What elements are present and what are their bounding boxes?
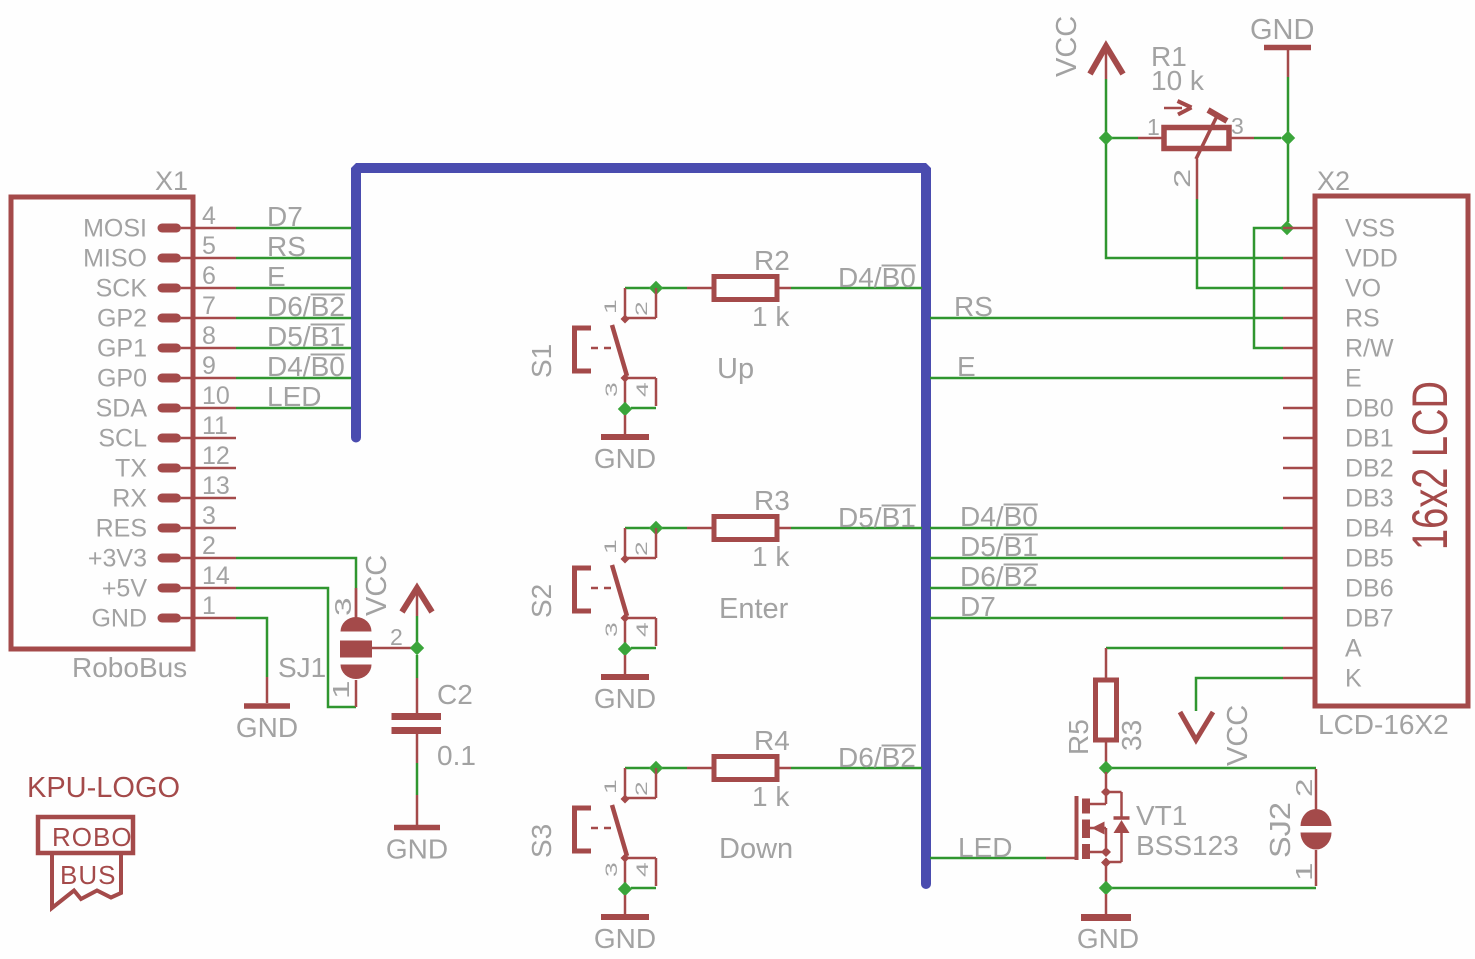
- svg-text:3: 3: [602, 382, 621, 397]
- svg-text:LED: LED: [958, 832, 1012, 863]
- svg-text:R/W: R/W: [1345, 335, 1394, 363]
- wire net D4/B0 from X1 to bus: [236, 377, 358, 380]
- junction at S3 pin 3: [618, 882, 632, 896]
- net label E right of bus: [957, 351, 976, 382]
- svg-text:13: 13: [202, 472, 230, 500]
- label S2: [526, 584, 557, 618]
- svg-text:R4: R4: [754, 725, 790, 756]
- svg-text:BUS: BUS: [60, 860, 116, 890]
- wire VCC arrow to junction: [416, 616, 419, 648]
- S1 pin number 2: [632, 301, 651, 316]
- value 1 k of R2: [752, 301, 790, 332]
- bus D[4..7],RS,E,LED: [356, 168, 926, 884]
- svg-text:S3: S3: [526, 824, 557, 858]
- junction VCC / R1.1 / VDD: [1099, 131, 1113, 145]
- label 16x2 LCD: [1403, 381, 1458, 550]
- svg-text:VSS: VSS: [1345, 215, 1395, 243]
- X2 pin A: [1283, 635, 1362, 663]
- svg-text:BSS123: BSS123: [1136, 830, 1239, 861]
- svg-text:1 k: 1 k: [752, 781, 790, 812]
- label SJ1: [278, 652, 326, 683]
- R1 wiper arrow: [1164, 101, 1192, 115]
- X2 pin DB3: [1283, 485, 1394, 513]
- X1 pin 11 SCL: [98, 412, 236, 453]
- svg-text:GND: GND: [594, 923, 656, 954]
- svg-text:RS: RS: [267, 231, 306, 262]
- net label D4/B0: [267, 351, 345, 382]
- svg-text:D4/B0: D4/B0: [267, 351, 345, 382]
- wire junction to SJ2 pin 2: [1112, 767, 1316, 770]
- X1 pin 4 MOSI: [83, 202, 236, 243]
- svg-text:1: 1: [1292, 862, 1318, 881]
- svg-text:10: 10: [202, 382, 230, 410]
- svg-text:D5/B1: D5/B1: [838, 502, 916, 533]
- resistor R5: [1096, 648, 1117, 762]
- X2 pin DB6: [1283, 575, 1394, 603]
- X2 pin E: [1283, 365, 1362, 393]
- net label D4/B0: [838, 262, 916, 293]
- svg-text:SJ1: SJ1: [278, 652, 326, 683]
- junction at S2 pin 3: [618, 642, 632, 656]
- ground symbol below S3: [594, 917, 656, 954]
- svg-text:6: 6: [202, 262, 216, 290]
- junction GND / R1.3: [1281, 131, 1295, 145]
- svg-text:SDA: SDA: [96, 395, 148, 423]
- ground symbol below X1: [236, 677, 298, 743]
- KPU-LOGO text: [27, 772, 180, 804]
- svg-text:3: 3: [331, 597, 357, 616]
- svg-text:VT1: VT1: [1136, 800, 1187, 831]
- S2 pin number 2: [632, 541, 651, 556]
- value 1 k of R3: [752, 541, 790, 572]
- wire VCC to R1 pin 1: [1106, 79, 1138, 138]
- VCC symbol above C2: [402, 588, 432, 616]
- value 1 k of R4: [752, 781, 790, 812]
- VCC symbol pointing down near K: [1180, 712, 1213, 740]
- wire VCC junction to X2 VDD: [1106, 144, 1283, 258]
- svg-text:5: 5: [202, 232, 216, 260]
- SJ1 pin number 3: [331, 597, 357, 616]
- svg-text:12: 12: [202, 442, 230, 470]
- junction VT1 source / GND: [1099, 881, 1113, 895]
- svg-text:2: 2: [632, 781, 651, 796]
- R1 pin number 2: [1170, 169, 1196, 188]
- switch S3 Down: [572, 768, 656, 889]
- label VCC top right: [1051, 16, 1083, 77]
- net label D6/B2: [838, 742, 916, 773]
- wire net VCC from X1 +3V3 to SJ1 pin 3: [236, 558, 356, 618]
- net label D5/B1 right of bus: [960, 531, 1038, 562]
- label Enter: [719, 593, 789, 625]
- resistor R4: [687, 757, 791, 780]
- svg-text:GP2: GP2: [97, 305, 147, 333]
- svg-text:RS: RS: [954, 291, 993, 322]
- label RoboBus: [72, 652, 187, 683]
- solder jumper SJ2: [1301, 769, 1332, 886]
- svg-text:RS: RS: [1345, 305, 1380, 333]
- svg-text:GND: GND: [1250, 14, 1314, 46]
- S3 pin number 2: [632, 781, 651, 796]
- svg-text:D4/B0: D4/B0: [960, 501, 1038, 532]
- svg-text:DB7: DB7: [1345, 605, 1394, 633]
- svg-text:DB0: DB0: [1345, 395, 1394, 423]
- junction at S1 pin 3: [618, 402, 632, 416]
- wire R1 pin 3 to GND junction: [1254, 137, 1281, 140]
- svg-text:GND: GND: [594, 443, 656, 474]
- X1 pin 14 +5V: [102, 562, 236, 603]
- svg-text:LED: LED: [267, 381, 321, 412]
- X2 pin VDD: [1283, 245, 1398, 273]
- svg-text:D7: D7: [267, 201, 303, 232]
- svg-text:1: 1: [202, 592, 216, 620]
- wire net D6/B2 from R4 to bus: [791, 767, 922, 770]
- svg-text:2: 2: [1170, 169, 1196, 188]
- svg-text:D6/B2: D6/B2: [838, 742, 916, 773]
- X2 pin DB2: [1283, 455, 1394, 483]
- S2 pin number 1: [601, 539, 620, 554]
- svg-text:MISO: MISO: [83, 245, 147, 273]
- net label D6/B2 right of bus: [960, 561, 1038, 592]
- svg-text:3: 3: [602, 622, 621, 637]
- SJ1 pin number 2: [390, 624, 403, 650]
- transistor VT1 BSS123: [1046, 772, 1130, 884]
- svg-text:2: 2: [202, 532, 216, 560]
- label VT1: [1136, 800, 1187, 831]
- wire S2 to ground: [624, 655, 627, 675]
- label VCC at SJ1: [361, 555, 393, 616]
- wire net D5/B1 from bus to X2: [930, 557, 1283, 560]
- switch S1 Up: [572, 288, 656, 409]
- wire net D6/B2 from bus to X2: [930, 587, 1283, 590]
- R1 pin number 3: [1231, 113, 1244, 139]
- svg-text:+5V: +5V: [102, 575, 148, 603]
- svg-text:R3: R3: [754, 485, 790, 516]
- label Up: [717, 353, 754, 385]
- value 10 k: [1151, 65, 1205, 96]
- net label D6/B2: [267, 291, 345, 322]
- RoboBus logo banner: [38, 817, 133, 908]
- solder jumper SJ1: [340, 588, 412, 707]
- SJ1 pin number 1: [329, 680, 355, 699]
- svg-text:2: 2: [1292, 778, 1318, 797]
- wire net LED from bus to VT1 gate: [930, 857, 1046, 860]
- svg-text:VCC: VCC: [361, 555, 393, 616]
- junction at S3 pin 2: [649, 761, 663, 775]
- svg-text:GND: GND: [594, 683, 656, 714]
- svg-text:Enter: Enter: [719, 593, 789, 625]
- label S1: [526, 344, 557, 378]
- label C2: [437, 679, 473, 710]
- X1 pin 3 RES: [96, 502, 236, 543]
- X2 pin DB4: [1283, 515, 1394, 543]
- svg-text:33: 33: [1116, 720, 1147, 751]
- svg-text:3: 3: [1231, 113, 1244, 139]
- X1 pin 6 SCK: [96, 262, 236, 303]
- net label D7: [267, 201, 303, 232]
- S3 pin number 1: [601, 779, 620, 794]
- resistor R3: [687, 517, 791, 540]
- svg-text:VCC: VCC: [1222, 705, 1254, 766]
- wire net RS from bus to X2: [930, 317, 1283, 320]
- svg-text:DB3: DB3: [1345, 485, 1394, 513]
- SJ2 pin number 1: [1292, 862, 1318, 881]
- S3 pin number 4: [633, 862, 652, 877]
- wire SJ2 pin 1 to GND net: [1112, 887, 1316, 890]
- S3 pin number 3: [602, 862, 621, 877]
- label R1: [1151, 41, 1187, 72]
- svg-text:4: 4: [633, 622, 652, 637]
- svg-text:R5: R5: [1063, 719, 1094, 755]
- label X1: [155, 166, 188, 196]
- wire net D5/B1 from R3 to bus: [791, 527, 922, 530]
- X2 pin VO: [1283, 275, 1381, 303]
- net label LED right of bus: [958, 832, 1012, 863]
- svg-text:SCL: SCL: [98, 425, 147, 453]
- X2 pin R/W: [1283, 335, 1394, 363]
- svg-text:1 k: 1 k: [752, 541, 790, 572]
- svg-text:VCC: VCC: [1051, 16, 1083, 77]
- svg-text:1: 1: [601, 299, 620, 314]
- S2 pin number 3: [602, 622, 621, 637]
- X2 pin DB0: [1283, 395, 1394, 423]
- junction at SJ1 pin 2 / C2: [410, 641, 424, 655]
- wire net D5/B1 from X1 to bus: [236, 347, 358, 350]
- wire switch S1 to resistor R2: [625, 287, 687, 290]
- svg-text:10 k: 10 k: [1151, 65, 1205, 96]
- net label D5/B1: [267, 321, 345, 352]
- svg-text:GND: GND: [236, 712, 298, 743]
- S2 pin number 4: [633, 622, 652, 637]
- wire R1 wiper to X2 VO: [1197, 199, 1283, 288]
- svg-text:D6/B2: D6/B2: [960, 561, 1038, 592]
- svg-text:S2: S2: [526, 584, 557, 618]
- ground symbol below S2: [594, 677, 656, 714]
- R1 pin number 1: [1147, 114, 1160, 140]
- svg-text:DB4: DB4: [1345, 515, 1394, 543]
- VCC symbol top right: [1090, 46, 1123, 79]
- svg-text:1: 1: [601, 539, 620, 554]
- svg-text:4: 4: [633, 382, 652, 397]
- wire VSS junction to R/W: [1254, 228, 1283, 348]
- ground symbol below C2: [386, 795, 448, 865]
- svg-text:SCK: SCK: [96, 275, 148, 303]
- label R5: [1063, 719, 1094, 755]
- svg-text:GP0: GP0: [97, 365, 147, 393]
- svg-text:S1: S1: [526, 344, 557, 378]
- wire net GND from X1 GND pin: [236, 618, 267, 677]
- svg-text:X1: X1: [155, 166, 188, 196]
- label VCC near K: [1222, 705, 1254, 766]
- wire junction to C2: [416, 655, 419, 678]
- svg-text:TX: TX: [115, 455, 147, 483]
- potentiometer R1: [1138, 110, 1254, 199]
- wire S1 to ground: [624, 415, 627, 435]
- X1 pin 2 +3V3: [88, 532, 236, 573]
- value 33: [1116, 720, 1147, 751]
- svg-text:RX: RX: [112, 485, 147, 513]
- svg-text:DB1: DB1: [1345, 425, 1394, 453]
- net label RS right of bus: [954, 291, 993, 322]
- net label D5/B1: [838, 502, 916, 533]
- svg-text:GND: GND: [386, 834, 448, 865]
- wire S3 to ground: [624, 895, 627, 915]
- svg-text:C2: C2: [437, 679, 473, 710]
- junction at X2 VSS: [1280, 221, 1294, 235]
- svg-text:E: E: [267, 261, 286, 292]
- wire net E from X1 to bus: [236, 287, 358, 290]
- connector X1 RoboBus box: [11, 197, 193, 649]
- connector X2 LCD box: [1315, 196, 1468, 706]
- svg-text:0.1: 0.1: [437, 740, 476, 771]
- svg-text:DB2: DB2: [1345, 455, 1394, 483]
- svg-text:2: 2: [390, 624, 403, 650]
- capacitor C2: [392, 678, 442, 763]
- X2 pin DB5: [1283, 545, 1394, 573]
- wire net D6/B2 from X1 to bus: [236, 317, 358, 320]
- ground symbol below VT1: [1077, 894, 1139, 954]
- X1 pin 7 GP2: [97, 292, 236, 333]
- svg-text:4: 4: [202, 202, 216, 230]
- svg-text:E: E: [1345, 365, 1362, 393]
- label R4: [754, 725, 790, 756]
- X1 pin 5 MISO: [83, 232, 236, 273]
- label R2: [754, 245, 790, 276]
- svg-text:E: E: [957, 351, 976, 382]
- junction R5 / VT1 drain / SJ2.2: [1099, 761, 1113, 775]
- X1 pin 8 GP1: [97, 322, 236, 363]
- label SJ2: [1264, 802, 1297, 858]
- svg-text:SJ2: SJ2: [1264, 802, 1297, 858]
- wire C2 to ground: [416, 763, 419, 795]
- svg-text:A: A: [1345, 635, 1362, 663]
- svg-text:+3V3: +3V3: [88, 545, 147, 573]
- wire net E from bus to X2: [930, 377, 1283, 380]
- svg-text:D6/B2: D6/B2: [267, 291, 345, 322]
- SJ2 pin number 2: [1292, 778, 1318, 797]
- junction at S1 pin 2: [649, 281, 663, 295]
- wire net D4/B0 from R2 to bus: [791, 287, 922, 290]
- svg-text:D5/B1: D5/B1: [267, 321, 345, 352]
- svg-text:LCD-16X2: LCD-16X2: [1318, 709, 1449, 740]
- net label RS: [267, 231, 306, 262]
- svg-text:D7: D7: [960, 591, 996, 622]
- svg-text:11: 11: [202, 412, 228, 440]
- wire junction down to VSS: [1287, 144, 1290, 222]
- wire net K from X2 K to VCC: [1196, 678, 1283, 711]
- svg-text:1: 1: [1147, 114, 1160, 140]
- value 0.1: [437, 740, 476, 771]
- label X2: [1317, 166, 1350, 196]
- svg-text:1: 1: [601, 779, 620, 794]
- svg-text:DB6: DB6: [1345, 575, 1394, 603]
- wire GND to junction: [1287, 77, 1290, 132]
- svg-text:7: 7: [202, 292, 216, 320]
- svg-text:VDD: VDD: [1345, 245, 1398, 273]
- wire switch S2 to resistor R3: [625, 527, 687, 530]
- junction at S2 pin 2: [649, 521, 663, 535]
- label S3: [526, 824, 557, 858]
- svg-text:Up: Up: [717, 353, 754, 385]
- wire net RS from X1 to bus: [236, 257, 358, 260]
- svg-text:1: 1: [329, 680, 355, 699]
- label R3: [754, 485, 790, 516]
- X1 pin 9 GP0: [97, 352, 236, 393]
- svg-text:Down: Down: [719, 833, 793, 865]
- net label E: [267, 261, 286, 292]
- svg-text:GND: GND: [91, 605, 147, 633]
- wire net +5V from X1 +5V to SJ1 pin 1: [236, 588, 356, 707]
- svg-text:RES: RES: [96, 515, 147, 543]
- wire net LED from X1 to bus: [236, 407, 358, 410]
- X1 pin 1 GND: [91, 592, 236, 633]
- S1 pin number 4: [633, 382, 652, 397]
- S1 pin number 3: [602, 382, 621, 397]
- X1 pin 12 TX: [115, 442, 236, 483]
- ground symbol top right: [1250, 14, 1314, 77]
- S1 pin number 1: [601, 299, 620, 314]
- X2 pin DB1: [1283, 425, 1394, 453]
- svg-text:16x2 LCD: 16x2 LCD: [1403, 381, 1458, 550]
- svg-text:D5/B1: D5/B1: [960, 531, 1038, 562]
- svg-text:X2: X2: [1317, 166, 1350, 196]
- X2 pin VSS: [1283, 215, 1395, 243]
- value BSS123: [1136, 830, 1239, 861]
- svg-text:D4/B0: D4/B0: [838, 262, 916, 293]
- svg-text:9: 9: [202, 352, 216, 380]
- net label D4/B0 right of bus: [960, 501, 1038, 532]
- svg-text:14: 14: [202, 562, 230, 590]
- svg-text:2: 2: [632, 541, 651, 556]
- resistor R2: [687, 277, 791, 300]
- svg-text:VO: VO: [1345, 275, 1381, 303]
- svg-text:3: 3: [202, 502, 216, 530]
- svg-text:4: 4: [633, 862, 652, 877]
- svg-text:ROBO: ROBO: [52, 822, 133, 852]
- wire net D4/B0 from bus to X2: [930, 527, 1283, 530]
- svg-text:MOSI: MOSI: [83, 215, 147, 243]
- svg-text:GND: GND: [1077, 923, 1139, 954]
- X1 pin 13 RX: [112, 472, 236, 513]
- wire net D7 from bus to X2: [930, 617, 1283, 620]
- X2 pin K: [1283, 665, 1362, 693]
- ground symbol below S1: [594, 437, 656, 474]
- net label D7 right of bus: [960, 591, 996, 622]
- svg-text:KPU-LOGO: KPU-LOGO: [27, 772, 180, 804]
- X2 pin RS: [1283, 305, 1380, 333]
- svg-text:GP1: GP1: [97, 335, 147, 363]
- X2 pin DB7: [1283, 605, 1394, 633]
- label Down: [719, 833, 793, 865]
- svg-text:1 k: 1 k: [752, 301, 790, 332]
- svg-text:K: K: [1345, 665, 1362, 693]
- wire net A from R5 to X2 A: [1106, 647, 1283, 650]
- svg-text:R2: R2: [754, 245, 790, 276]
- svg-text:DB5: DB5: [1345, 545, 1394, 573]
- svg-text:RoboBus: RoboBus: [72, 652, 187, 683]
- wire net D7 from X1 to bus: [236, 227, 358, 230]
- X1 pin 10 SDA: [96, 382, 236, 423]
- switch S2 Enter: [572, 528, 656, 649]
- net label LED: [267, 381, 321, 412]
- svg-text:8: 8: [202, 322, 216, 350]
- wire switch S3 to resistor R4: [625, 767, 687, 770]
- svg-text:2: 2: [632, 301, 651, 316]
- label LCD-16X2: [1318, 709, 1449, 740]
- svg-text:3: 3: [602, 862, 621, 877]
